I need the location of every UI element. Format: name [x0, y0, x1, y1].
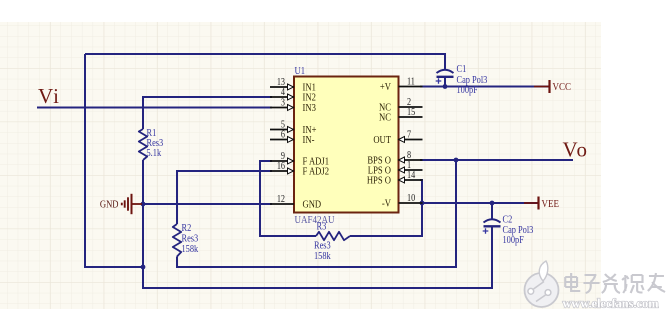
svg-text:C1: C1	[457, 64, 467, 75]
pin 3 IN3 (left)	[270, 97, 316, 115]
svg-text:GND: GND	[303, 199, 322, 211]
svg-text:HPS O: HPS O	[367, 175, 391, 187]
svg-text:IN3: IN3	[303, 102, 317, 114]
wire left feedback vertical to ground-net junction	[85, 54, 143, 267]
svg-text:15: 15	[407, 106, 416, 117]
svg-text:3: 3	[281, 97, 285, 108]
resistor R2	[173, 223, 199, 256]
svg-text:12: 12	[277, 193, 286, 204]
svg-text:IN-: IN-	[303, 134, 315, 146]
svg-text:-V: -V	[382, 198, 391, 210]
wire Vi to IN3	[37, 107, 272, 109]
capacitor C1	[436, 64, 488, 96]
svg-text:Res3: Res3	[182, 234, 199, 245]
svg-text:C2: C2	[503, 215, 513, 226]
svg-text:11: 11	[407, 76, 415, 87]
junction lower-left node	[141, 265, 146, 270]
pin 15 NC (right)	[379, 106, 422, 124]
wire -V to VEE	[420, 202, 538, 204]
wire top feedback rail with C1 top lead	[85, 54, 445, 70]
wire +V to VCC	[420, 86, 549, 88]
svg-text:+V: +V	[380, 81, 391, 93]
pin 4 IN2 (left)	[270, 86, 316, 104]
wire C1 bottom lead	[444, 78, 446, 87]
pin 7 OUT (right)	[373, 129, 422, 147]
op-amp IC U1 body	[294, 77, 399, 213]
pin 10 -V (right)	[382, 192, 423, 210]
junction C2/-V	[490, 201, 495, 206]
junction GND node	[141, 202, 146, 207]
svg-text:6: 6	[281, 129, 285, 140]
capacitor C2	[483, 215, 534, 246]
pin 14 HPS O (right)	[367, 169, 423, 187]
ground GND power port	[100, 194, 142, 214]
pin 12 GND (left)	[270, 193, 321, 211]
svg-text:VEE: VEE	[542, 198, 560, 210]
svg-text:R3: R3	[317, 222, 327, 233]
wire C2 top lead	[491, 203, 493, 220]
watermark elecfans logo	[525, 261, 559, 307]
junction Vo/BPS	[454, 158, 459, 163]
svg-text:F ADJ2: F ADJ2	[303, 166, 330, 178]
pin 1 LPS O (right)	[368, 159, 423, 177]
svg-text:158k: 158k	[182, 244, 199, 255]
svg-text:U1: U1	[295, 65, 306, 77]
svg-text:16: 16	[277, 160, 286, 171]
wire F ADJ1 to R3 left	[260, 161, 316, 236]
wire R3 right to HPS pin	[350, 180, 422, 236]
pin 16 F ADJ2 (left)	[270, 160, 329, 178]
svg-text:14: 14	[407, 169, 416, 180]
svg-text:VCC: VCC	[553, 81, 572, 93]
junction C1/+V	[443, 84, 448, 89]
svg-text:R2: R2	[182, 223, 192, 234]
svg-text:Vo: Vo	[563, 138, 589, 162]
resistor R1	[139, 128, 164, 160]
svg-text:7: 7	[407, 129, 411, 140]
svg-text:100pF: 100pF	[457, 85, 478, 96]
svg-text:100pF: 100pF	[503, 235, 524, 246]
resistor R3	[314, 222, 350, 262]
wire R2 bottom to BPS junction rail	[177, 160, 456, 267]
power port VEE	[524, 197, 559, 211]
svg-text:UAF42AU: UAF42AU	[295, 214, 336, 226]
svg-text:158k: 158k	[314, 251, 331, 262]
svg-text:5.1k: 5.1k	[147, 148, 162, 159]
pin 8 BPS O (right)	[367, 149, 422, 167]
pin 2 NC (right)	[379, 96, 422, 114]
pin 9 F ADJ1 (left)	[270, 150, 329, 168]
wire F ADJ2 to R2 top	[177, 171, 272, 224]
svg-text:10: 10	[407, 192, 416, 203]
wire R1 bottom / GND net / bottom rail to C2 bottom	[143, 160, 492, 288]
pin 5 IN+ (left)	[270, 119, 316, 137]
svg-text:GND: GND	[100, 199, 119, 211]
svg-text:NC: NC	[379, 112, 391, 124]
junction HPS/R3/-V	[420, 201, 425, 206]
svg-text:OUT: OUT	[373, 134, 391, 146]
power port VCC	[534, 80, 571, 93]
pin 13 IN1 (left)	[270, 76, 316, 94]
svg-text:4: 4	[281, 86, 285, 97]
watermark chinese characters	[565, 273, 665, 293]
svg-text:Vi: Vi	[38, 84, 60, 108]
wire BPS to Vo	[420, 159, 573, 161]
wire GND pin 12	[143, 203, 272, 205]
svg-text:www.elecfans.com: www.elecfans.com	[563, 296, 659, 311]
pin 11 +V (right)	[380, 76, 423, 94]
wire IN2 to R1 top	[143, 97, 272, 129]
pin 6 IN- (left)	[270, 129, 314, 147]
